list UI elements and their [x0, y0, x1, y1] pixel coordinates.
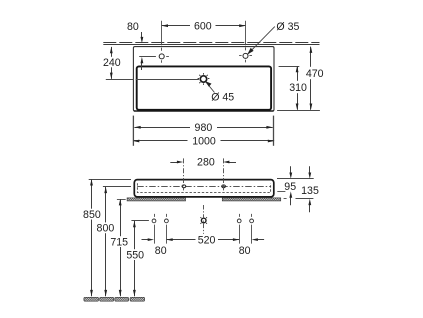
svg-text:Ø 35: Ø 35 — [276, 21, 299, 33]
dimension 850 line — [91, 179, 93, 296]
tap hole right (plan) — [243, 53, 248, 58]
floor pad 1 — [84, 297, 99, 301]
mounting rail hatched right — [222, 198, 280, 201]
wall ledge strip bottom solid line — [103, 44, 319, 46]
dimension 135 bottom shaft and arrow — [309, 204, 311, 212]
front view basin outline — [134, 180, 273, 197]
dimension 80 right shaft and arrow — [258, 239, 265, 241]
wall mounting hole left B — [165, 219, 169, 223]
mounting hole top ticks — [155, 214, 252, 217]
dimension 600 extension left — [161, 21, 163, 45]
leader for diameter 35 — [248, 27, 275, 55]
svg-text:135: 135 — [301, 185, 319, 197]
dimension 280 extension lines — [183, 158, 185, 190]
svg-text:Ø 45: Ø 45 — [211, 91, 234, 103]
svg-text:310: 310 — [289, 82, 307, 94]
dimension 280 left shaft and arrow — [170, 162, 177, 164]
dimension 240 arrows — [110, 47, 113, 53]
tap hole left (plan) — [159, 54, 164, 59]
front view tap hole oval left — [182, 185, 186, 188]
dimension 470 arrows — [310, 47, 313, 53]
svg-text:520: 520 — [198, 235, 216, 247]
interior drain level line — [136, 79, 199, 81]
front view tap centerline dash-dot — [137, 186, 270, 188]
mounting hole extension lines down — [155, 225, 252, 244]
svg-text:550: 550 — [126, 249, 144, 261]
svg-text:600: 600 — [194, 21, 212, 33]
dimension 310 line — [297, 66, 299, 110]
dimension 980 arrows — [134, 126, 140, 129]
dimension 550 top extension — [131, 220, 149, 222]
dimension 520 line — [166, 239, 239, 241]
dimension 550 line — [134, 221, 136, 296]
dimension 1000 arrows — [133, 140, 139, 143]
dimension 715 arrows — [119, 199, 122, 205]
dimension 550 arrows — [133, 221, 136, 227]
dimension 800 arrows — [104, 187, 107, 193]
dimension 310 arrows — [296, 66, 299, 72]
wall drain hole ticks — [200, 217, 207, 224]
svg-text:470: 470 — [306, 68, 324, 80]
svg-text:240: 240 — [103, 57, 121, 69]
dimension 80 left shaft and arrow — [142, 239, 149, 241]
svg-text:80: 80 — [155, 245, 167, 257]
dimension 80 lower shaft with up arrow — [141, 63, 143, 71]
svg-text:80: 80 — [127, 21, 139, 33]
svg-text:715: 715 — [110, 236, 128, 248]
dimension 850 top extension — [89, 179, 131, 181]
dimension 1000 line — [133, 140, 274, 142]
dimension 240 bottom extension — [106, 79, 134, 81]
basin outer outline (plan view) — [133, 47, 274, 111]
dimension 80 upper shaft with down arrow — [141, 32, 143, 38]
dimension 980/1000 left extensions — [132, 116, 134, 146]
svg-text:280: 280 — [197, 157, 215, 169]
dimension 135 bottom extension — [296, 198, 314, 200]
dimension 95 top shaft and arrow — [290, 166, 292, 173]
svg-text:850: 850 — [83, 209, 101, 221]
dimension 95 mid extension — [277, 191, 285, 193]
dimension 310 top extension — [279, 66, 300, 68]
mounting rail hatched left — [127, 198, 185, 201]
drain hole ring (plan) — [200, 76, 206, 82]
dimension 95 bottom shaft and arrow — [290, 197, 292, 205]
dimension 850 arrows — [90, 179, 93, 185]
dimension 135 top shaft and arrow — [309, 166, 311, 173]
dimension 980 line — [134, 127, 272, 129]
wall mounting hole right B — [250, 219, 254, 223]
wall drain centerline vertical — [203, 205, 205, 234]
leader for diameter 45 — [206, 82, 215, 93]
dimension 470/310 bottom extension — [277, 110, 320, 112]
wall mounting hole left A — [152, 219, 156, 223]
dimension 715 line — [120, 199, 122, 296]
dimension 280 right shaft and arrow — [229, 162, 236, 164]
dimension 240 line — [111, 47, 113, 79]
basin outer bottom edge bold — [134, 110, 274, 112]
dimension 800 top extension — [103, 186, 131, 188]
floor pad 2 — [100, 297, 114, 301]
wall drain hole ring — [201, 218, 206, 223]
svg-text:80: 80 — [239, 245, 251, 257]
drain hole radial ticks — [198, 73, 210, 85]
dimension 715 top extension — [117, 199, 126, 201]
dimension 800 line — [105, 187, 107, 296]
svg-text:800: 800 — [97, 223, 115, 235]
dimension 80 extension at hole level — [139, 56, 156, 58]
wall mounting hole right A — [237, 219, 241, 223]
dimension 470 line — [310, 47, 312, 110]
dimension 600 arrows — [162, 24, 168, 27]
inner bowl outline bold (plan view) — [137, 66, 271, 109]
svg-text:980: 980 — [195, 122, 213, 134]
dimension 600 line — [162, 25, 246, 27]
dimension 95/135 top extension — [277, 178, 314, 180]
front view hidden bowl dashed outline — [137, 183, 270, 192]
dimension 980/1000 right extensions — [273, 116, 275, 146]
floor pad 4 — [130, 297, 145, 301]
svg-text:95: 95 — [284, 181, 296, 193]
wall ledge strip (plan view, top dashed line) — [103, 42, 319, 44]
svg-text:1000: 1000 — [192, 136, 216, 148]
front view tap hole oval right — [222, 185, 226, 188]
dimension 520 arrows — [166, 238, 172, 241]
floor pad 3 — [115, 297, 129, 301]
dimension 600 extension right — [245, 21, 247, 45]
